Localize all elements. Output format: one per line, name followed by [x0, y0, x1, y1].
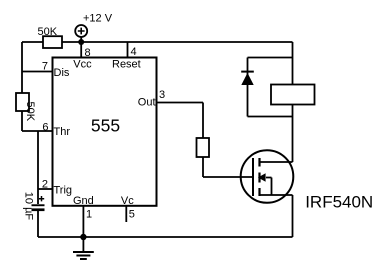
svg-text:1: 1: [86, 209, 92, 221]
svg-text:2: 2: [42, 179, 48, 191]
svg-text:6: 6: [42, 122, 48, 134]
svg-text:10 µF: 10 µF: [22, 192, 34, 221]
svg-text:50K: 50K: [38, 26, 58, 38]
svg-text:+12 V: +12 V: [83, 13, 113, 25]
svg-text:Dis: Dis: [54, 67, 70, 79]
svg-text:4: 4: [131, 46, 137, 58]
svg-text:Reset: Reset: [112, 59, 141, 71]
svg-text:Vc: Vc: [121, 195, 134, 207]
svg-text:Gnd: Gnd: [73, 195, 94, 207]
svg-text:3: 3: [159, 89, 165, 101]
svg-text:555: 555: [91, 116, 120, 136]
svg-text:8: 8: [85, 47, 91, 59]
svg-text:Trig: Trig: [54, 185, 73, 197]
svg-text:IRF540N: IRF540N: [305, 193, 373, 212]
svg-text:7: 7: [42, 61, 48, 73]
svg-text:50K: 50K: [24, 102, 36, 122]
svg-text:Vcc: Vcc: [73, 59, 92, 71]
svg-text:5: 5: [129, 209, 135, 221]
svg-text:Out: Out: [138, 97, 156, 109]
svg-text:Thr: Thr: [54, 126, 71, 138]
